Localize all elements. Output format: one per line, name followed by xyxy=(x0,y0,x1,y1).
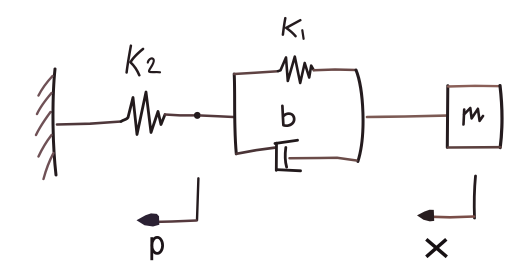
parallel branch top wire left segment xyxy=(234,71,278,74)
arrow p vertical xyxy=(197,178,198,220)
wall xyxy=(53,69,56,175)
spring K1 xyxy=(278,57,314,83)
parallel branch right bracket xyxy=(356,70,363,161)
arrow p head xyxy=(137,213,160,226)
label b xyxy=(282,106,294,126)
parallel branch left bracket xyxy=(234,74,236,154)
arrow p shaft xyxy=(151,221,197,223)
wire node to parallel branch xyxy=(201,116,233,118)
damper b cup xyxy=(275,140,301,171)
mass m box xyxy=(447,86,502,148)
label m xyxy=(464,108,484,125)
wire spring K2 to node xyxy=(165,113,194,116)
arrow x shaft xyxy=(433,215,474,218)
node junction dot xyxy=(194,112,201,119)
arrow x head xyxy=(417,210,434,222)
damper b rod xyxy=(290,158,357,161)
wall hatch 1 xyxy=(39,76,53,96)
label K2 xyxy=(127,46,160,75)
wall hatch 3 xyxy=(36,112,51,135)
label x xyxy=(426,239,447,256)
label p xyxy=(152,237,163,260)
arrow x vertical xyxy=(474,176,475,218)
wire wall to spring K2 xyxy=(57,122,121,125)
wall hatch 5 xyxy=(44,153,54,179)
spring K2 xyxy=(121,92,165,135)
wire parallel branch to mass xyxy=(367,116,446,117)
damper b piston xyxy=(285,148,286,168)
label K1 xyxy=(283,18,304,39)
parallel branch top wire right segment xyxy=(314,68,356,71)
parallel branch bottom wire xyxy=(236,148,276,154)
wall hatch 4 xyxy=(39,135,52,157)
wall hatch 2 xyxy=(37,93,52,114)
